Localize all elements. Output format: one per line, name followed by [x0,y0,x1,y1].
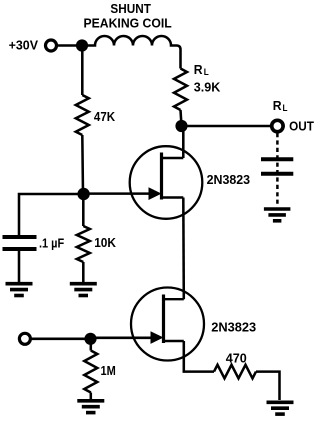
resistor R1 47K [76,95,89,135]
ground (10K) [70,282,97,286]
wire input terminal to node D [30,338,90,341]
svg-text:10K: 10K [94,235,116,250]
junction node A (+30V rail) [76,39,88,51]
wire node C to Q1 gate [83,192,151,195]
wire C1 to ground [18,249,21,282]
junction node B (output node) [175,120,187,132]
terminal +30V [9,37,57,52]
wire 470 to ground [256,372,280,400]
wire node C to bypass capacitor [19,194,83,237]
svg-text:2N3823: 2N3823 [207,172,251,187]
label: SHUNT PEAKING COIL [84,1,172,31]
svg-text:SHUNT: SHUNT [110,1,151,16]
svg-text:PEAKING COIL: PEAKING COIL [84,16,172,31]
wire Q1 drain to node B [182,126,185,158]
ground (470) [267,400,294,404]
wire node A to 47K [81,46,84,96]
inductor L1 shunt peaking coil [82,36,181,69]
svg-text:OUT: OUT [289,119,314,134]
transistor Q1 2N3823 [130,146,203,219]
wire dashed load branch [276,133,279,206]
wire 10K to ground [82,262,85,282]
resistor R3 1M [90,339,93,351]
svg-text:47K: 47K [94,109,116,124]
wire 47K to node C [81,135,84,194]
ground (C1) [6,282,33,286]
wire node D to Q2 gate [91,337,154,340]
svg-text:.1 µF: .1 µF [39,237,65,251]
terminal input [19,333,30,344]
resistor R2 10K [77,226,90,262]
svg-text:3.9K: 3.9K [194,79,221,94]
svg-text:L: L [204,67,209,77]
wire node C to 10K [82,194,85,226]
svg-text:R: R [194,62,203,77]
svg-text:R: R [273,98,282,113]
terminal OUT [272,98,314,134]
junction node D (Q2 gate node) [84,333,96,345]
wire node B to OUT terminal [182,125,271,128]
capacitor CL (load, dashed branch) [261,159,293,174]
junction node C (Q1 gate node) [77,188,89,200]
wire RL bottom to node B [181,110,182,126]
resistor RL 3.9K [174,69,187,111]
resistor R4 470 [214,365,256,379]
transistor Q2 2N3823 [131,288,204,361]
ground (load branch) [264,207,291,211]
ground (1M) [77,399,104,403]
svg-text:470: 470 [226,350,247,365]
wire 1M to ground [90,393,93,400]
svg-text:2N3823: 2N3823 [211,319,256,334]
wire +30V terminal to node A [57,44,83,47]
wire Q1 source to Q2 drain [182,198,185,300]
capacitor C1 .1uF [3,237,37,249]
svg-text:+30V: +30V [9,37,39,52]
svg-text:L: L [283,103,288,113]
svg-text:1M: 1M [101,363,116,378]
wire Q2 source to 470 resistor [184,341,214,372]
